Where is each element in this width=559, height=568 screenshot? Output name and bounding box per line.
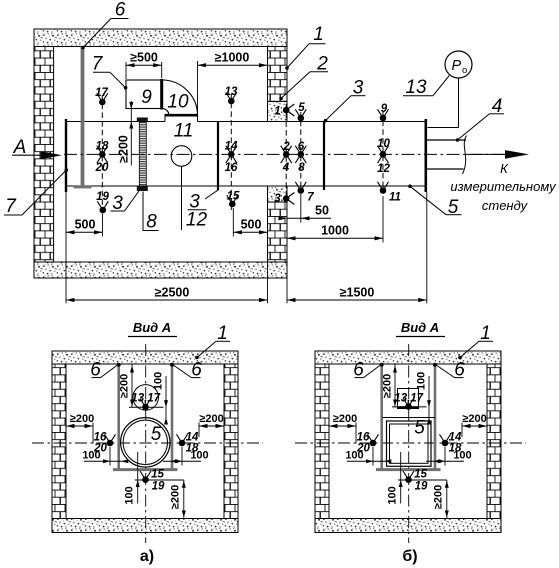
dim 1000 <box>287 237 383 239</box>
tube 4 bottom line <box>427 168 464 170</box>
view-a dim >=200 lower <box>183 480 185 519</box>
svg-text:100: 100 <box>153 372 165 390</box>
wall 1 right brick column upper <box>268 47 288 102</box>
svg-text:5: 5 <box>298 102 305 114</box>
leader fraction to grid 3 <box>205 190 218 199</box>
svg-text:3: 3 <box>274 193 281 205</box>
view-b view horizontal centerline <box>295 442 526 444</box>
mesh 8 bottom cap <box>137 186 148 191</box>
point 1 <box>283 107 290 114</box>
svg-text:11: 11 <box>389 192 401 204</box>
view-b dim >=200 upper <box>394 365 396 408</box>
section line x=231 (points 13-16) <box>230 94 232 210</box>
duct inlet open end <box>65 119 67 192</box>
view-b view wall 1 right brick <box>487 364 501 519</box>
svg-text:б): б) <box>402 548 417 565</box>
dim 500 left <box>66 231 103 233</box>
svg-text:20: 20 <box>95 162 109 174</box>
duct 5 top edge left part <box>66 121 165 123</box>
svg-text:11: 11 <box>174 121 194 142</box>
mesh 8 top cap <box>137 118 148 123</box>
view-a dim 100 left <box>109 447 111 466</box>
duct 5 top edge right part <box>198 121 426 123</box>
section line x=286 (points 1-4) <box>285 104 287 199</box>
leader from instrument 12 <box>181 166 183 230</box>
dim 500 left extension <box>102 214 104 237</box>
svg-text:500: 500 <box>75 218 96 232</box>
inlet box 9 <box>126 80 162 109</box>
wall 1 top band (ceiling of enclosure) <box>34 29 287 47</box>
svg-text:≥1500: ≥1500 <box>340 286 375 300</box>
view-b dim 100 lower <box>400 452 402 504</box>
view-b dim 100 left <box>372 447 374 466</box>
point 2/4 <box>283 151 290 158</box>
svg-text:стенду: стенду <box>482 198 529 213</box>
view-a duct 5 section outer circle <box>121 418 170 467</box>
seal 2 stipple above duct <box>268 102 288 122</box>
mesh 8 hatched bar <box>139 122 146 186</box>
duct outlet flange <box>424 119 427 192</box>
svg-text:7: 7 <box>92 54 104 75</box>
point 15 <box>229 201 236 208</box>
svg-text:17: 17 <box>95 87 108 99</box>
view-a dim 100 right <box>181 447 183 466</box>
elbow 10 outer arc <box>162 80 198 116</box>
section line x=301 (points 5-8) <box>300 112 302 192</box>
svg-text:100: 100 <box>345 450 363 462</box>
view-b point 16/20 left <box>370 440 377 447</box>
dim >=1500 extensions <box>286 278 288 303</box>
svg-text:≥200: ≥200 <box>382 374 394 398</box>
point 3 <box>283 195 290 202</box>
svg-text:10: 10 <box>377 138 390 150</box>
opening edge left stub <box>164 115 166 121</box>
view-a point 14/18 right <box>179 440 186 447</box>
dim >=200 vertical line <box>130 101 132 166</box>
lid 11 thick closed hatch <box>165 114 198 117</box>
view-a view wall 1 right brick <box>224 364 238 519</box>
view-b dim >=200 left <box>355 423 357 444</box>
svg-text:13,17: 13,17 <box>131 393 160 405</box>
svg-text:≥200: ≥200 <box>170 485 182 509</box>
partition 6 gray bar <box>81 47 85 188</box>
svg-text:≥1000: ≥1000 <box>215 51 250 65</box>
svg-text:13,17: 13,17 <box>394 393 423 405</box>
view-b dim >=200 right <box>461 423 463 438</box>
svg-text:5: 5 <box>151 424 162 445</box>
point 11 <box>380 187 387 194</box>
dim >=2500 extensions <box>65 192 67 303</box>
dim 50 extension <box>300 194 302 223</box>
view-a point 16/20 left <box>107 440 114 447</box>
svg-text:1: 1 <box>313 24 324 45</box>
svg-text:≥200: ≥200 <box>433 485 445 509</box>
svg-text:100: 100 <box>190 450 208 462</box>
view-a view wall 1 ceiling band <box>52 351 238 364</box>
svg-text:15: 15 <box>151 469 164 481</box>
svg-text:Вид А: Вид А <box>401 320 439 335</box>
svg-text:≥200: ≥200 <box>199 413 223 425</box>
view-b boxed point labels 13,17 <box>398 389 419 409</box>
point 9 <box>380 115 387 122</box>
dim >=500 extension lines <box>125 62 127 79</box>
svg-text:19: 19 <box>415 481 428 493</box>
point 10/12 <box>380 151 387 158</box>
wall 1 bottom band (floor of enclosure) <box>34 262 287 278</box>
svg-text:А: А <box>13 137 27 158</box>
view-a view partition bottom bar <box>113 468 178 471</box>
view-a dim >=200 right <box>198 423 200 438</box>
svg-text:19: 19 <box>152 481 165 493</box>
partition 6 gray foot <box>74 185 92 188</box>
point 5 <box>298 115 305 122</box>
view-b view partition 6 right <box>434 364 437 469</box>
point 18/20 <box>99 151 106 158</box>
view-a circled point labels 13,17 <box>133 385 159 411</box>
svg-text:13: 13 <box>405 77 427 98</box>
duct 5 bottom edge <box>66 185 426 187</box>
view-b duct 5 section outer square <box>387 421 432 466</box>
view-a dim 100 lower <box>137 452 139 504</box>
view-a view vertical centerline <box>145 344 147 543</box>
svg-text:2: 2 <box>282 141 290 153</box>
svg-text:4: 4 <box>282 162 290 174</box>
view-a view partition 6 right <box>171 364 174 469</box>
svg-text:18: 18 <box>96 141 109 153</box>
instrument 12 circle <box>171 146 192 167</box>
section line x=383 (points 9-12) <box>382 112 384 193</box>
svg-text:100: 100 <box>387 486 399 504</box>
gauge 13 impulse line <box>428 78 459 128</box>
svg-text:100: 100 <box>124 486 136 504</box>
svg-text:≥2500: ≥2500 <box>155 286 190 300</box>
svg-text:9: 9 <box>381 103 388 115</box>
svg-text:100: 100 <box>82 450 100 462</box>
view-a point 13/17 baseline <box>129 406 164 408</box>
view-a view wall 1 floor band <box>52 519 238 533</box>
svg-text:16: 16 <box>225 162 238 174</box>
svg-text:Вид А: Вид А <box>133 320 171 335</box>
section line x=102 (points 17-20) <box>101 95 103 216</box>
svg-text:≥200: ≥200 <box>119 374 131 398</box>
view-b view partition bottom bar <box>376 468 441 471</box>
view-b point 13/17 baseline <box>392 406 427 408</box>
view-b view wall 1 floor band <box>315 519 501 533</box>
view-a dim >=200 upper <box>131 365 133 408</box>
axis flow arrow right <box>505 150 529 159</box>
view-b view partition junction dots <box>380 363 384 367</box>
wall 1 right brick column lower <box>268 202 288 262</box>
svg-text:13: 13 <box>225 86 238 98</box>
elbow 10 inner arc <box>162 109 169 116</box>
inlet box 9 thick right edge <box>160 79 163 110</box>
view-b view wall 1 left brick <box>315 364 329 519</box>
view-b point 15/19 bottom <box>405 476 412 483</box>
dim >=1500 <box>287 299 427 301</box>
svg-text:15: 15 <box>227 191 240 203</box>
svg-text:12: 12 <box>377 163 390 175</box>
svg-text:15: 15 <box>414 469 427 481</box>
svg-text:≥200: ≥200 <box>462 413 486 425</box>
svg-text:6: 6 <box>115 0 126 21</box>
point 17 <box>99 99 106 106</box>
dim >=500 <box>126 64 162 66</box>
view-a view horizontal centerline <box>32 442 263 444</box>
dim >=200 arrows <box>129 102 133 109</box>
point 7 <box>298 187 305 194</box>
grid 3 second (thick line in duct) <box>323 122 325 190</box>
view-a dim 100 upper <box>165 376 167 420</box>
svg-text:измерительному: измерительному <box>450 179 557 194</box>
svg-text:5: 5 <box>414 418 425 439</box>
view-b view vertical centerline <box>408 344 410 543</box>
view-b view partition 6 left <box>380 364 383 469</box>
view-b view wall 1 ceiling band <box>315 351 501 364</box>
svg-text:≥200: ≥200 <box>117 135 131 163</box>
point 13 <box>228 98 235 105</box>
view-a view wall 1 left brick <box>52 364 66 519</box>
opening edge right stub <box>197 116 199 122</box>
point 6/8 <box>298 151 305 158</box>
tube 4 wavy break <box>463 136 467 175</box>
dim >=2500 <box>66 299 268 301</box>
view-b dim 100 upper <box>428 376 430 420</box>
gauge 13 circle Po <box>445 51 472 78</box>
grid 3 first (thick line in duct) <box>217 122 219 190</box>
view-b dim 100 right <box>444 447 446 466</box>
svg-text:50: 50 <box>315 204 329 218</box>
svg-text:а): а) <box>140 548 154 565</box>
svg-text:≥500: ≥500 <box>130 51 158 65</box>
axis line to arrow <box>466 153 506 155</box>
dim >=1000 extension line <box>197 61 199 113</box>
view-a duct 5 section inner circle <box>123 420 167 464</box>
svg-text:12: 12 <box>186 210 208 231</box>
svg-text:100: 100 <box>453 450 471 462</box>
svg-text:8: 8 <box>146 212 157 233</box>
svg-text:19: 19 <box>96 191 109 203</box>
wall 1 left brick column <box>34 47 54 263</box>
view-a point 13/17 dot <box>142 404 149 411</box>
axis centerline dash-dot <box>64 153 508 155</box>
point 19 <box>100 207 107 214</box>
view-b dim >=200 lower <box>446 480 448 519</box>
svg-text:≥200: ≥200 <box>70 413 94 425</box>
dim 500 right extension <box>232 208 234 237</box>
svg-text:≥200: ≥200 <box>333 413 357 425</box>
view-a view partition junction dots <box>117 363 121 367</box>
view-a point 15/19 baseline <box>135 479 184 481</box>
view-b point 14/18 right <box>442 440 449 447</box>
svg-text:14: 14 <box>225 141 238 153</box>
svg-text:1: 1 <box>274 106 280 118</box>
svg-text:7: 7 <box>307 192 314 204</box>
seal 2 stipple below duct <box>268 186 288 202</box>
view-a dim >=200 left <box>92 423 94 444</box>
svg-text:1000: 1000 <box>321 224 349 238</box>
dim 50 <box>287 217 331 219</box>
view arrow A line <box>12 154 44 156</box>
view-a view partition 6 left <box>117 364 120 469</box>
dim 1000 extension <box>382 196 384 243</box>
view arrow A head <box>41 151 62 159</box>
svg-text:9: 9 <box>141 87 152 108</box>
svg-text:Р: Р <box>452 58 462 74</box>
dim >=1000 <box>198 64 268 66</box>
svg-text:8: 8 <box>298 162 305 174</box>
svg-text:500: 500 <box>241 218 262 232</box>
svg-text:10: 10 <box>167 92 189 113</box>
view-a point 15/19 bottom <box>142 476 149 483</box>
svg-text:6: 6 <box>298 141 305 153</box>
svg-text:о: о <box>462 65 467 76</box>
point 14/16 <box>228 151 235 158</box>
view-b point 13/17 thick sill <box>398 406 419 409</box>
view-b point 13/17 dot <box>405 403 412 410</box>
view-b duct 5 section inner square <box>390 424 429 463</box>
dim 500 right <box>233 231 267 233</box>
view-b point 15/19 baseline <box>398 479 447 481</box>
tube 4 top line <box>427 139 466 141</box>
svg-text:100: 100 <box>416 372 428 390</box>
view-b line between partitions at duct top <box>383 417 436 419</box>
svg-text:7: 7 <box>5 196 17 217</box>
svg-text:К: К <box>500 161 509 176</box>
